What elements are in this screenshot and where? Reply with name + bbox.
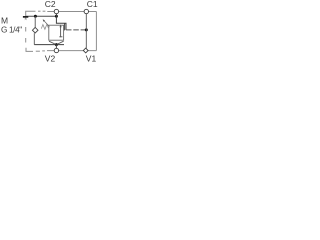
envelope left edge dashes: [25, 27, 27, 43]
port C1: [84, 9, 88, 13]
spring: [41, 24, 49, 29]
port M plug bar: [23, 16, 28, 18]
svg-text:V1: V1: [86, 53, 97, 63]
node junction M line to C2 drop: [55, 15, 58, 18]
port V2: [54, 48, 58, 52]
port V1 diamond: [83, 48, 88, 53]
envelope dashed box top edge: [26, 11, 97, 19]
node junction V2: [55, 43, 58, 46]
relief arrow tail bar: [59, 36, 62, 38]
relief flow arrow: [60, 26, 62, 37]
wire pilot dashed line: [66, 29, 86, 31]
node pilot junction: [85, 28, 88, 31]
wire C1-V1 through line: [85, 14, 87, 49]
port C2: [54, 9, 58, 13]
check valve seat V: [49, 41, 64, 44]
wire gauge drop upper: [34, 16, 36, 27]
wire internal bottom line: [34, 44, 64, 46]
svg-text:C2: C2: [45, 0, 56, 9]
wire gauge drop lower: [33, 33, 35, 44]
svg-text:M: M: [1, 15, 8, 25]
svg-text:G 1/4": G 1/4": [1, 25, 22, 34]
gauge coupling diamond: [32, 27, 38, 33]
wire M gauge line: [26, 15, 56, 17]
adjustment arrow: [44, 21, 50, 27]
port M plug cross: [25, 18, 27, 20]
wire V2 drop: [55, 45, 57, 49]
valve cartridge square: [49, 25, 64, 40]
port M plug stub: [25, 18, 27, 20]
node junction on M line: [34, 15, 37, 18]
svg-text:C1: C1: [87, 0, 98, 9]
valve square dark right edge: [64, 23, 66, 30]
envelope right edge: [95, 12, 97, 51]
envelope bottom edge: [26, 48, 96, 52]
wire C2 drop: [56, 14, 66, 30]
svg-text:V2: V2: [45, 53, 56, 63]
